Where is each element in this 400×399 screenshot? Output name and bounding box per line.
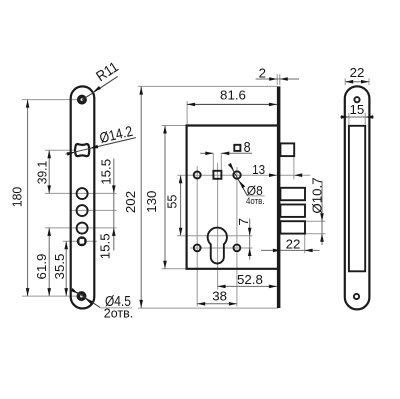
ext line bottom hole 180/61.9/35.5 xyxy=(22,295,77,297)
latch ext line xyxy=(293,156,295,179)
bottom screw hole side xyxy=(354,294,359,299)
dim line 55 xyxy=(180,175,182,236)
dim line 22 width xyxy=(345,81,369,83)
left cylinder screw hole xyxy=(194,245,201,252)
right cylinder screw hole xyxy=(234,245,241,252)
center line small hole xyxy=(63,240,97,242)
svg-text:2: 2 xyxy=(259,65,266,80)
arrows 15 xyxy=(341,115,349,119)
ext faceplate top level / 202 xyxy=(138,85,277,87)
hole row center line / 13 dim xyxy=(177,174,310,176)
ext 2mm xyxy=(276,74,278,85)
dim line 15 xyxy=(340,116,374,118)
square hole ext lines xyxy=(212,153,214,170)
latch bolt tab xyxy=(280,143,294,156)
arrows 55 xyxy=(179,175,183,183)
left screw hole xyxy=(194,172,201,179)
arrows 13 xyxy=(269,173,277,177)
svg-text:81.6: 81.6 xyxy=(220,88,246,103)
ext line top hole 180 xyxy=(22,99,78,101)
deadbolt pin 1 xyxy=(280,188,305,200)
dim line O10.7 xyxy=(321,181,323,245)
svg-text:35.5: 35.5 xyxy=(52,254,67,280)
R11 radius leader xyxy=(82,76,118,100)
arrows 202 xyxy=(139,87,143,95)
svg-text:13: 13 xyxy=(252,162,265,177)
dim line 15.5 pair xyxy=(113,159,115,251)
arrows 38 xyxy=(197,302,205,306)
arrows 180 xyxy=(26,100,30,108)
ext case bottom 130 xyxy=(162,268,187,270)
circle hole 2 xyxy=(77,205,88,216)
arrows 130 xyxy=(163,126,167,134)
svg-text:22: 22 xyxy=(286,236,301,251)
arrows 15.5 pair xyxy=(112,185,116,193)
O4.5 leader xyxy=(77,292,100,307)
dim line 130 xyxy=(164,126,166,269)
bottom screw hole xyxy=(77,292,85,300)
ext line spindle hole xyxy=(45,149,75,151)
center line circle3 xyxy=(45,227,117,229)
circle hole 3 xyxy=(77,223,88,234)
svg-text:2отв.: 2отв. xyxy=(104,307,133,321)
ext lines 22 width xyxy=(344,78,346,85)
recessed channel xyxy=(349,126,365,271)
center line right holes vertical xyxy=(236,167,238,307)
arrows 52.8 xyxy=(218,285,226,289)
bolt ext lines O10.7 xyxy=(306,220,325,222)
svg-text:52.8: 52.8 xyxy=(237,272,263,287)
arrows 61.9 xyxy=(47,228,51,236)
svg-text:8: 8 xyxy=(244,140,251,156)
svg-text:Ø10.7: Ø10.7 xyxy=(309,177,324,213)
dim line 38 xyxy=(197,303,237,305)
ext 81.6 left xyxy=(186,101,188,126)
dim line 202 xyxy=(140,86,142,308)
arrows 22 bolt xyxy=(273,249,281,253)
spindle hole O14.2 xyxy=(75,144,89,156)
text sq8 xyxy=(234,145,240,151)
svg-text:15.5: 15.5 xyxy=(99,159,114,185)
top screw hole xyxy=(78,96,86,104)
svg-text:4отв.: 4отв. xyxy=(246,196,265,206)
dim line 35.5 xyxy=(65,241,67,296)
svg-text:55: 55 xyxy=(165,195,180,209)
cylinder keyhole xyxy=(208,228,227,264)
arrows 22 width xyxy=(345,80,353,84)
top screw hole side xyxy=(354,97,359,102)
bolt end ext line 22 xyxy=(304,234,306,253)
svg-text:130: 130 xyxy=(144,191,159,213)
center line keyhole vertical xyxy=(217,163,219,290)
arrows 35.5 xyxy=(64,241,68,249)
dim line 180 xyxy=(27,100,29,297)
faceplate side outline xyxy=(345,86,370,309)
ext faceplate bottom / 202 xyxy=(138,307,278,309)
dim line 39.1/61.9 xyxy=(48,150,50,193)
ext case top 130 xyxy=(162,125,187,127)
arrows 2mm xyxy=(269,77,277,81)
dim line sq8 xyxy=(200,152,213,154)
svg-text:61.9: 61.9 xyxy=(34,254,49,280)
svg-text:38: 38 xyxy=(212,288,227,303)
svg-text:180: 180 xyxy=(10,187,25,208)
O8 leader xyxy=(231,167,247,196)
faceplate edge band xyxy=(277,86,281,308)
svg-text:15.5: 15.5 xyxy=(97,233,112,259)
arrows 81.6 xyxy=(187,103,195,107)
dim line 22 xyxy=(261,249,320,251)
svg-text:39.1: 39.1 xyxy=(35,161,50,185)
O8 dim arrows xyxy=(228,163,235,172)
side circles row line xyxy=(190,247,253,249)
O14.2 leader xyxy=(66,138,136,155)
svg-text:22: 22 xyxy=(350,65,365,80)
right hole O8 xyxy=(233,171,240,178)
circle hole 1 xyxy=(77,188,88,199)
dim line 52.8 xyxy=(218,285,277,287)
arrows O10.7 xyxy=(320,213,324,221)
arrows sq8 xyxy=(205,152,213,156)
dim line 7 xyxy=(249,219,251,260)
small square hole xyxy=(77,236,87,246)
lock case outline xyxy=(187,126,277,269)
svg-text:7: 7 xyxy=(236,218,251,225)
svg-text:15: 15 xyxy=(350,102,365,117)
deadbolt pin 3 xyxy=(280,221,305,233)
svg-text:202: 202 xyxy=(123,191,138,213)
arrows 7 xyxy=(248,228,252,236)
dim line 81.6 xyxy=(187,103,277,105)
center line circle2 xyxy=(72,209,117,211)
arrows 39.1 xyxy=(47,150,51,158)
dim line 2mm xyxy=(256,78,300,80)
ext lines 15 xyxy=(348,113,350,125)
square spindle hole xyxy=(213,171,221,179)
keyhole center horizontal xyxy=(177,235,253,237)
center line left holes vertical xyxy=(196,166,198,307)
deadbolt pin 2 xyxy=(280,205,305,217)
faceplate front outline xyxy=(71,86,95,308)
center line circle1 xyxy=(45,192,117,194)
